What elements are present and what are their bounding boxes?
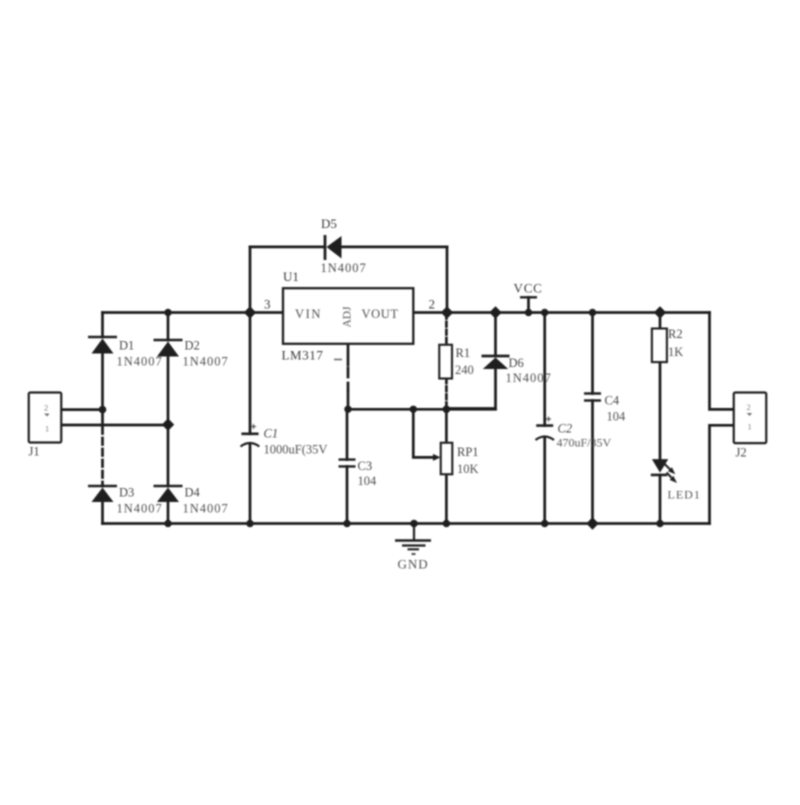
node C2 bottom xyxy=(541,520,548,527)
svg-text:R1: R1 xyxy=(456,346,471,360)
diode D2 xyxy=(154,339,229,369)
LED LED1 xyxy=(651,459,701,501)
wire R2/LED branch xyxy=(659,313,662,524)
connector J2 xyxy=(734,393,767,460)
node C3 bottom xyxy=(343,520,350,527)
wire RP1 top lead xyxy=(445,409,448,442)
svg-text:2: 2 xyxy=(747,402,751,412)
svg-text:1: 1 xyxy=(45,424,49,434)
node 2 diamond xyxy=(441,306,453,318)
svg-text:C3: C3 xyxy=(358,459,373,473)
wire J1 pin2 stub xyxy=(61,408,102,411)
capacitor C1 xyxy=(241,424,328,457)
diode D4 xyxy=(154,486,229,516)
svg-text:2: 2 xyxy=(44,403,48,413)
node wiper tap xyxy=(410,406,417,413)
svg-text:D1: D1 xyxy=(119,339,134,353)
svg-text:2: 2 xyxy=(429,297,436,312)
svg-text:1N4007: 1N4007 xyxy=(117,355,163,369)
svg-text:104: 104 xyxy=(358,474,378,488)
wire ADJ horizontal rail to D6 xyxy=(348,408,496,411)
diode D5 xyxy=(321,216,367,275)
svg-text:1N4007: 1N4007 xyxy=(117,502,163,516)
svg-text:R2: R2 xyxy=(668,327,683,341)
node VCC tap xyxy=(525,309,532,316)
svg-text:1N4007: 1N4007 xyxy=(183,502,229,516)
svg-text:C4: C4 xyxy=(605,394,620,408)
node R2 top diamond xyxy=(654,306,666,318)
connector J1 xyxy=(29,393,62,459)
svg-text:1N4007: 1N4007 xyxy=(183,355,229,369)
node J1 pin1 diamond xyxy=(162,418,174,430)
capacitor C2 xyxy=(536,417,612,450)
wire J2 bottom branch xyxy=(710,425,734,523)
capacitor C4 xyxy=(584,394,626,424)
svg-text:VOUT: VOUT xyxy=(362,307,399,321)
svg-text:ADJ: ADJ xyxy=(342,306,354,328)
svg-text:D6: D6 xyxy=(509,356,524,370)
svg-text:J1: J1 xyxy=(29,445,40,459)
node C2 top xyxy=(541,309,548,316)
wire bottom ground rail xyxy=(103,522,710,525)
node junction dots xyxy=(99,306,667,529)
resistor R2 xyxy=(652,327,683,362)
svg-text:D3: D3 xyxy=(119,486,134,500)
wire D5 loop right riser xyxy=(446,247,449,313)
svg-text:1N4007: 1N4007 xyxy=(321,261,367,275)
wire C3 branch xyxy=(346,409,349,523)
wire top rail right (VOUT rail) xyxy=(414,311,710,314)
pin 2 label xyxy=(429,297,436,312)
wire D6 branch xyxy=(446,313,495,409)
node J1 pin2 xyxy=(99,406,107,414)
pin 1 mark xyxy=(334,359,342,361)
pin 3 label xyxy=(264,297,271,312)
svg-text:1: 1 xyxy=(748,422,752,432)
node C4 bottom diamond xyxy=(586,517,598,529)
svg-text:C2: C2 xyxy=(558,422,573,436)
svg-text:D2: D2 xyxy=(185,339,200,353)
svg-text:1000uF(35V: 1000uF(35V xyxy=(264,443,328,457)
node top rail D2 xyxy=(164,309,171,316)
wire J1 pin1 stub xyxy=(61,424,168,427)
node RP1 bottom xyxy=(443,520,450,527)
diode D1 xyxy=(88,337,163,369)
svg-text:240: 240 xyxy=(455,363,474,377)
wire left bridge column lower dashed (to D3) xyxy=(101,410,104,524)
wire RP1 wiper xyxy=(413,409,433,457)
svg-text:D5: D5 xyxy=(321,216,337,231)
node D6 top diamond xyxy=(489,306,501,318)
wire C2 branch xyxy=(543,313,546,524)
diode D3 xyxy=(88,486,163,516)
svg-text:LM317: LM317 xyxy=(282,348,324,363)
resistor R1 xyxy=(439,345,474,379)
node ADJ stem xyxy=(344,406,351,413)
wire D5 loop left riser xyxy=(249,247,252,313)
svg-text:1K: 1K xyxy=(668,345,683,359)
node C1 bottom xyxy=(246,520,253,527)
svg-text:RP1: RP1 xyxy=(457,445,479,459)
svg-text:470uF/35V: 470uF/35V xyxy=(557,436,612,450)
svg-text:U1: U1 xyxy=(283,269,299,284)
svg-text:VCC: VCC xyxy=(514,281,543,296)
potentiometer RP1 xyxy=(433,443,479,476)
svg-text:C1: C1 xyxy=(264,427,279,441)
svg-text:10K: 10K xyxy=(457,462,479,476)
svg-text:GND: GND xyxy=(398,557,429,572)
power VCC xyxy=(514,281,543,298)
wire R1 branch dashed xyxy=(445,314,448,409)
ground GND xyxy=(395,524,431,572)
node R1 bottom xyxy=(443,406,451,414)
wire top rail left (bridge + to VIN) xyxy=(103,311,284,314)
node LED bottom xyxy=(656,520,663,527)
node C4 top xyxy=(589,309,596,316)
wire VCC stem xyxy=(527,297,530,312)
svg-text:104: 104 xyxy=(607,410,627,424)
svg-text:VIN: VIN xyxy=(295,307,322,321)
node 3 diamond xyxy=(244,306,256,318)
svg-text:LED1: LED1 xyxy=(668,488,701,502)
wire D5 top segment left xyxy=(250,246,324,249)
capacitor C3 xyxy=(339,459,378,488)
svg-text:1N4007: 1N4007 xyxy=(506,371,552,385)
node D4 bottom xyxy=(164,520,171,527)
wire D5 top segment right xyxy=(342,246,447,249)
wire second bridge column (D2/D4 branch) xyxy=(167,313,170,524)
wire RP1 bottom lead xyxy=(445,474,448,523)
wire C4 branch xyxy=(591,313,594,524)
wire J2 top branch xyxy=(710,313,734,410)
wire U1 ADJ stem xyxy=(347,344,350,410)
wire left bridge column upper (D1 branch) xyxy=(101,313,104,410)
svg-text:D4: D4 xyxy=(185,486,201,500)
op-amp U1 regulator LM317 xyxy=(282,269,414,363)
wire C1 branch xyxy=(249,313,252,524)
svg-text:J2: J2 xyxy=(736,446,747,460)
svg-text:3: 3 xyxy=(264,297,271,312)
node GND tap xyxy=(410,520,418,528)
diode D6 xyxy=(482,356,552,385)
